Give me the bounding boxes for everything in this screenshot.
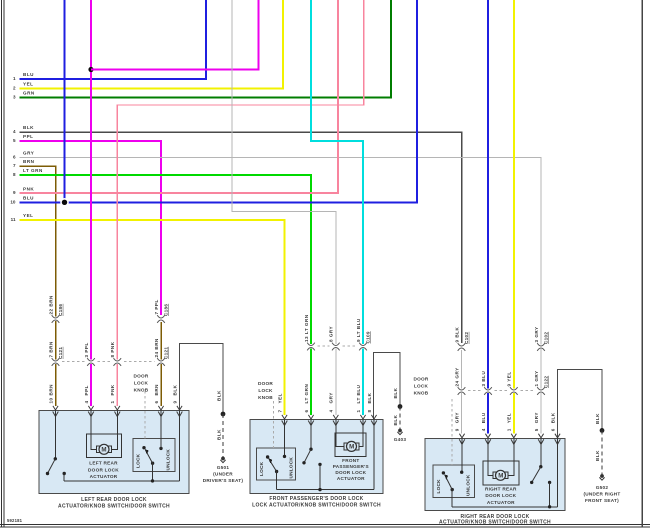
svg-text:LEFT REAR: LEFT REAR (89, 461, 118, 466)
wire 10 BLU horizontal row up to top (20, 0, 418, 202)
svg-text:9: 9 (454, 428, 459, 431)
front passenger door lock box (250, 420, 383, 494)
svg-text:UNLOCK: UNLOCK (289, 457, 294, 479)
svg-text:3 BLU: 3 BLU (481, 371, 486, 387)
svg-text:DOOR: DOOR (258, 381, 273, 386)
svg-text:7 PPL: 7 PPL (154, 299, 159, 314)
svg-text:ACTUATOR: ACTUATOR (337, 476, 365, 481)
ground G501 (220, 457, 225, 463)
pin arrows middle box (282, 415, 288, 426)
wire PPL branch horizontal and up (91, 0, 259, 70)
right box motor actuator outline (483, 461, 519, 485)
svg-text:(UNDER: (UNDER (213, 472, 233, 477)
wire BLK left box pin 9 to ground G501 (180, 344, 224, 415)
svg-text:DOOR: DOOR (133, 374, 148, 379)
svg-text:24 BRN: 24 BRN (154, 338, 159, 358)
node junction dot G502 wire (600, 428, 605, 433)
middle box pin 8 riser (373, 420, 375, 490)
wire dashed connector link C121 (62, 361, 85, 363)
wire LT BLU from top to middle box pin 1 (311, 0, 363, 415)
connector C122 (458, 387, 466, 395)
svg-text:LOCK: LOCK (258, 388, 273, 393)
wire 9 PNK horizontal row up to top (20, 0, 339, 193)
svg-text:PNK: PNK (23, 186, 34, 191)
svg-text:ACTUATOR: ACTUATOR (90, 474, 118, 479)
svg-text:3 GRY: 3 GRY (534, 326, 539, 342)
svg-text:YEL: YEL (277, 393, 282, 403)
svg-text:BLK: BLK (595, 413, 600, 424)
svg-text:C186: C186 (163, 304, 168, 316)
svg-text:LOCK: LOCK (414, 384, 429, 389)
svg-text:DOOR LOCK: DOOR LOCK (485, 493, 516, 498)
svg-text:3 PPL: 3 PPL (84, 342, 89, 357)
middle box knob switch contacts and lever (266, 455, 269, 458)
svg-text:YEL: YEL (507, 413, 512, 423)
svg-text:(UNDER RIGHT: (UNDER RIGHT (583, 492, 620, 497)
ground G403 (397, 429, 402, 435)
middle box pin 7 wire to unlock contact (284, 420, 286, 457)
svg-text:LOCK: LOCK (136, 453, 141, 468)
wire 24 BRN segment below C186 to left box pin 6 (160, 322, 162, 406)
svg-text:PPL: PPL (84, 385, 89, 395)
middle box door lock knob dashed pointer (273, 401, 275, 448)
border frame right line (641, 0, 643, 527)
svg-text:M: M (101, 447, 106, 454)
svg-text:M: M (498, 473, 503, 480)
wire BLU vertical branch from top (64, 0, 66, 202)
svg-text:LOCK: LOCK (259, 461, 264, 476)
svg-text:9: 9 (172, 400, 177, 403)
svg-text:5: 5 (534, 428, 539, 431)
connector C109 (307, 343, 315, 351)
svg-text:BLK: BLK (172, 384, 177, 395)
svg-text:LT BLU: LT BLU (356, 384, 361, 403)
right rear door lock box (425, 438, 565, 510)
left box pin 9 riser (179, 411, 181, 481)
motor M3 right rear door lock actuator (493, 472, 508, 479)
node junction dot wire 10 BLU (60, 198, 69, 207)
right box knob switch box (433, 465, 474, 497)
wire dashed connector link C122 (468, 390, 482, 392)
svg-text:GRN: GRN (23, 91, 35, 96)
svg-text:UNLOCK: UNLOCK (466, 474, 471, 496)
svg-text:8: 8 (13, 172, 16, 177)
right box knob switch contacts and lever (442, 471, 445, 474)
left box door lock knob dashed pointer (144, 391, 146, 439)
wire 2 YEL horizontal row (20, 0, 284, 89)
svg-text:YEL: YEL (23, 213, 33, 218)
svg-text:DOOR LOCK: DOOR LOCK (335, 470, 366, 475)
svg-text:BRN: BRN (23, 159, 35, 164)
svg-text:BLK: BLK (23, 125, 34, 130)
svg-text:GRY: GRY (534, 412, 539, 423)
svg-text:5: 5 (13, 138, 16, 143)
left box internal pin 10 wire and door switch (55, 411, 57, 459)
svg-text:PNK: PNK (110, 384, 115, 395)
svg-text:10: 10 (48, 397, 53, 403)
wire 4 BLK horizontal row to right box (20, 132, 462, 343)
wire 11 YEL horizontal row down to middle box pin 7 (20, 220, 285, 415)
border frame left double line (1, 0, 3, 527)
svg-text:4: 4 (329, 409, 334, 412)
svg-text:C109: C109 (365, 331, 370, 343)
wire BLK middle box pin 8 to ground G403 (374, 353, 401, 420)
motor M2 front passenger door lock actuator (344, 443, 359, 450)
svg-text:6: 6 (154, 400, 159, 403)
wire 7 BRN horizontal row down to left box pin 10 (20, 166, 56, 406)
svg-text:BRN: BRN (154, 384, 159, 396)
svg-text:PASSENGER'S: PASSENGER'S (333, 464, 369, 469)
wire GRY from top to middle box pin 4 (232, 0, 336, 415)
wire PNK from top via horizontal run to left box pin 1 (117, 0, 363, 406)
svg-text:G502: G502 (596, 485, 609, 490)
node junction dot G501 wire (221, 412, 226, 417)
svg-text:4: 4 (84, 400, 89, 403)
svg-text:24 GRY: 24 GRY (454, 367, 459, 386)
svg-text:YEL: YEL (23, 82, 33, 87)
right box door lock knob dashed pointer (451, 399, 453, 465)
svg-text:6: 6 (550, 428, 555, 431)
middle box ground rail (277, 489, 374, 491)
left rear door lock box (39, 411, 189, 494)
middle box motor actuator outline (335, 433, 366, 456)
svg-text:BLK: BLK (367, 392, 372, 403)
svg-text:6: 6 (304, 409, 309, 412)
svg-text:1: 1 (13, 76, 16, 81)
svg-text:GRY: GRY (329, 392, 334, 403)
svg-text:BRN: BRN (48, 384, 53, 396)
svg-text:BLK: BLK (217, 390, 222, 401)
right box pin 9 wire to unlock contact (461, 438, 463, 472)
wire 3 GRN horizontal row (20, 0, 392, 98)
svg-text:ACTUATOR: ACTUATOR (487, 500, 515, 505)
svg-text:BLK: BLK (393, 414, 398, 425)
svg-text:BLK: BLK (217, 429, 222, 440)
svg-text:LT GRN: LT GRN (23, 168, 43, 173)
wire BLK dashed to G403 (399, 407, 401, 430)
svg-text:6: 6 (13, 155, 16, 160)
svg-text:9 YEL: 9 YEL (507, 371, 512, 386)
svg-text:BLU: BLU (481, 412, 486, 423)
svg-text:M: M (349, 444, 354, 451)
left box knob switch box (133, 439, 175, 472)
middle box knob switch box (256, 448, 295, 480)
svg-text:BLK: BLK (550, 412, 555, 423)
svg-text:4: 4 (481, 428, 486, 431)
svg-text:DOOR: DOOR (413, 377, 428, 382)
pin arrows right box (459, 434, 465, 445)
svg-text:8 PNK: 8 PNK (110, 341, 115, 357)
svg-text:DRIVER'S SEAT): DRIVER'S SEAT) (203, 478, 244, 483)
svg-text:LOCK ACTUATOR/KNOB SWITCH/DOOR: LOCK ACTUATOR/KNOB SWITCH/DOOR SWITCH (252, 502, 381, 508)
svg-text:22 BRN: 22 BRN (48, 295, 53, 315)
wire 8 LT GRN horizontal row to middle box pin 6 (20, 175, 312, 415)
svg-text:9 LT BLU: 9 LT BLU (356, 318, 361, 342)
svg-text:9 BLK: 9 BLK (454, 327, 459, 343)
svg-text:8: 8 (367, 409, 372, 412)
wire PPL vertical from top to left box pin 4 (90, 0, 92, 406)
ground G502 (599, 474, 604, 480)
right box pin 6 riser (557, 438, 559, 507)
left box motor actuator outline (86, 434, 121, 458)
middle box door switch (310, 420, 312, 450)
svg-text:592181: 592181 (7, 518, 23, 523)
svg-text:FRONT: FRONT (342, 458, 359, 463)
svg-text:10: 10 (10, 199, 16, 204)
wire dashed connector link C109 (318, 345, 330, 347)
connector C102 (458, 343, 466, 351)
svg-text:LOCK: LOCK (134, 381, 149, 386)
svg-text:C121: C121 (58, 347, 63, 359)
wire BLK dashed to G501 (222, 414, 224, 457)
right box ground rail (452, 506, 557, 508)
node junction dot PPL branch (88, 67, 93, 72)
svg-text:G403: G403 (394, 437, 407, 442)
svg-text:KNOB: KNOB (414, 391, 429, 396)
left box knob switch contacts and lever (142, 446, 145, 449)
svg-text:BLU: BLU (23, 72, 34, 77)
svg-text:RIGHT REAR: RIGHT REAR (485, 487, 517, 492)
connector C121 (52, 358, 60, 366)
svg-text:C102: C102 (464, 332, 469, 344)
svg-text:C121: C121 (163, 347, 168, 359)
svg-text:7: 7 (277, 409, 282, 412)
wire BLK right box pin 6 to ground G502 (558, 370, 603, 439)
svg-text:C102: C102 (543, 332, 548, 344)
svg-text:UNLOCK: UNLOCK (166, 449, 171, 471)
svg-text:13 LT GRN: 13 LT GRN (304, 314, 309, 342)
svg-text:BLK: BLK (393, 387, 398, 398)
wire YEL vertical from top to right box pin 1 (513, 0, 515, 434)
svg-text:1: 1 (356, 409, 361, 412)
wire BLK dashed to G502 (601, 430, 603, 474)
wire 1 BLU horizontal row (20, 0, 207, 79)
svg-text:FRONT SEAT): FRONT SEAT) (585, 498, 619, 503)
left box door switch contact (62, 472, 65, 475)
svg-text:9: 9 (13, 190, 16, 195)
svg-text:G501: G501 (217, 465, 230, 470)
svg-text:2: 2 (13, 86, 16, 91)
wire 6 GRY horizontal row to right box pin 5 (20, 158, 542, 434)
svg-text:LT GRN: LT GRN (304, 384, 309, 404)
svg-text:C186: C186 (58, 304, 63, 316)
node junction dot G403 wire (398, 404, 403, 409)
wire 5 PPL horizontal row (20, 141, 162, 315)
svg-text:C122: C122 (543, 376, 548, 388)
svg-text:7 BRN: 7 BRN (48, 341, 53, 357)
svg-text:4: 4 (13, 129, 16, 134)
right box motor wires (488, 438, 493, 475)
right box door switch (540, 438, 542, 466)
svg-text:ACTUATOR/KNOB SWITCH/DOOR SWIT: ACTUATOR/KNOB SWITCH/DOOR SWITCH (439, 519, 551, 525)
left box ground rail (64, 480, 179, 482)
svg-text:GRY: GRY (23, 151, 34, 156)
pin arrows left box (53, 406, 59, 417)
motor M1 left rear door lock actuator (97, 446, 112, 453)
svg-text:GRY: GRY (454, 412, 459, 423)
wire 24 GRY segment below C102 to right box pin 9 (461, 350, 463, 434)
svg-text:DOOR LOCK: DOOR LOCK (88, 467, 119, 472)
left box motor wires (91, 411, 97, 450)
svg-text:LEFT REAR DOOR LOCK: LEFT REAR DOOR LOCK (81, 497, 147, 503)
border frame bottom double line (0, 524, 650, 526)
wire BLU vertical from top to right box pin 4 (487, 0, 489, 434)
row labels wires 1-11 (10, 72, 43, 222)
svg-text:8 GRY: 8 GRY (329, 326, 334, 342)
svg-text:KNOB: KNOB (134, 388, 149, 393)
connector C186 (52, 315, 60, 323)
svg-text:PPL: PPL (23, 134, 33, 139)
middle box motor wires (336, 420, 345, 447)
svg-text:1: 1 (110, 400, 115, 403)
svg-text:ACTUATOR/KNOB SWITCH/DOOR SWIT: ACTUATOR/KNOB SWITCH/DOOR SWITCH (58, 504, 170, 510)
svg-text:BLK: BLK (595, 450, 600, 461)
svg-text:7: 7 (13, 163, 16, 168)
svg-text:KNOB: KNOB (258, 395, 273, 400)
svg-text:BLU: BLU (23, 196, 34, 201)
svg-text:3: 3 (13, 95, 16, 100)
svg-text:1: 1 (507, 428, 512, 431)
svg-text:11: 11 (11, 217, 16, 222)
svg-text:1 GRY: 1 GRY (534, 370, 539, 386)
svg-text:LOCK: LOCK (436, 479, 441, 494)
svg-text:FRONT PASSENGER'S DOOR LOCK: FRONT PASSENGER'S DOOR LOCK (269, 496, 363, 502)
